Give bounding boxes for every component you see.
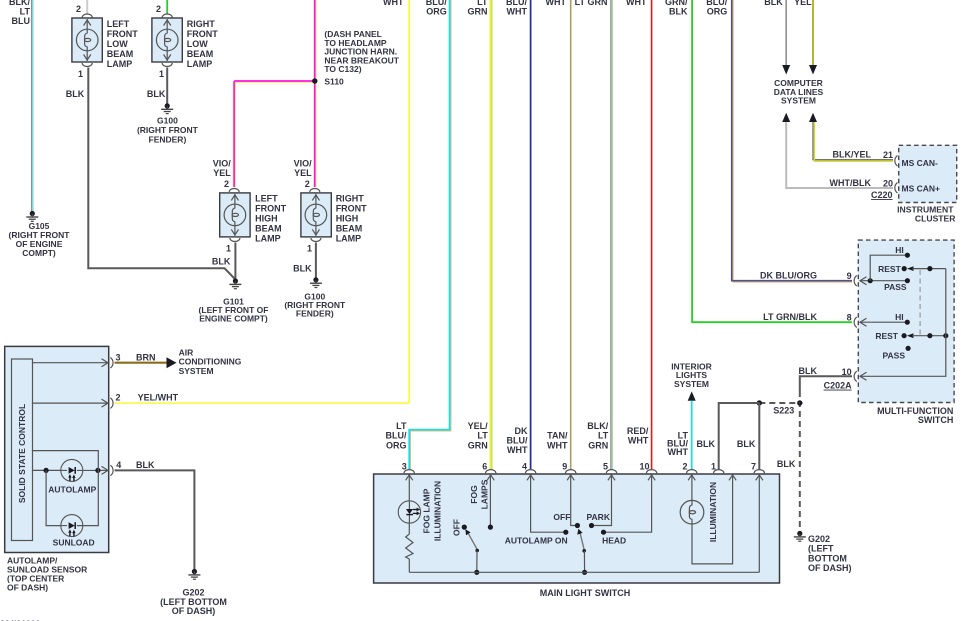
svg-text:RIGHT: RIGHT [187,19,216,29]
label fog lamp illumination [421,481,442,541]
svg-text:SWITCH: SWITCH [918,415,954,425]
wire MFS internal bus to pin 10 [860,269,946,381]
svg-text:C202A: C202A [824,381,853,391]
svg-text:MS CAN+: MS CAN+ [902,183,941,193]
svg-text:BLK: BLK [777,459,796,469]
wire BLK/YEL from computer data lines to C220 pin 21 [809,113,893,162]
svg-text:2: 2 [682,462,687,472]
svg-text:FRONT: FRONT [255,204,286,214]
svg-text:OFF: OFF [553,512,570,522]
svg-text:DK: DK [515,426,528,436]
autolamp/sunload sensor box [5,346,109,592]
svg-text:TAN/: TAN/ [547,431,568,441]
svg-text:8: 8 [847,313,852,323]
node REST upper with wiper [878,264,946,274]
wire BLK sensor pin 4 to G202 [115,460,195,570]
svg-text:4: 4 [116,460,121,470]
wire LT BLU/WHT to pin 2 [667,401,692,470]
svg-text:FENDER): FENDER) [296,309,334,319]
svg-text:SYSTEM: SYSTEM [179,366,214,376]
svg-text:PARK: PARK [587,512,611,522]
pin 10 main light switch [601,462,657,535]
svg-text:BRN: BRN [136,352,156,362]
wire BLK pin 7 to S223 [737,403,759,470]
svg-text:ORG: ORG [426,7,447,17]
svg-text:LOW: LOW [187,39,208,49]
svg-text:1: 1 [78,69,83,79]
ground G202 (left bottom of dash) [794,531,852,573]
svg-text:2: 2 [224,179,229,189]
svg-text:FRONT: FRONT [336,204,367,214]
main light switch box [374,474,780,598]
svg-text:WHT: WHT [507,445,528,455]
svg-text:LAMPS: LAMPS [480,479,490,509]
svg-text:6: 6 [482,462,487,472]
wire WHT/BLK from computer data lines to C220 pin 20 [782,113,893,189]
pin 4 main light switch [522,462,568,535]
svg-text:ORG: ORG [707,7,728,17]
svg-text:AUTOLAMP: AUTOLAMP [48,485,96,495]
svg-text:1: 1 [307,244,312,254]
svg-text:REST: REST [878,264,901,274]
pin 2 main light switch [682,462,696,501]
wire BRN to air conditioning [115,347,242,376]
label fog lamps [469,479,490,509]
wire BLK pin1 right high beam [293,238,321,279]
wire YEL to computer data lines [794,0,817,75]
svg-text:3: 3 [116,352,121,362]
lamp right front low beam [152,18,218,69]
svg-text:9: 9 [847,271,852,281]
svg-text:WHT: WHT [546,0,567,7]
node S223 [757,400,803,415]
svg-text:GRN: GRN [468,7,488,17]
svg-text:WHT: WHT [668,447,689,457]
svg-text:BLK: BLK [147,89,166,99]
svg-text:RED/: RED/ [627,426,649,436]
wire BLK pin1 left high beam [212,238,240,280]
svg-text:1: 1 [226,244,231,254]
multi-function switch [858,240,954,402]
svg-text:1: 1 [159,69,164,79]
svg-text:LAMP: LAMP [255,234,281,244]
wire BLK pin1 left low beam to G101 [66,63,236,280]
svg-text:(RIGHT FRONT: (RIGHT FRONT [137,125,199,135]
svg-text:BLK: BLK [136,460,155,470]
lamp illumination [680,482,718,542]
svg-text:LT: LT [598,431,609,441]
instrument cluster [895,145,957,223]
wire dashed to G202 [777,391,800,532]
wire WHT pin2 left low beam [76,0,92,18]
svg-text:(LEFT: (LEFT [808,544,834,554]
svg-text:YEL: YEL [213,168,231,178]
svg-text:LAMP: LAMP [107,59,133,69]
wire BLK/LT BLU to G105 [9,0,33,212]
svg-text:2: 2 [76,4,81,14]
pin 4 sensor [98,460,121,476]
svg-text:2: 2 [116,393,121,403]
svg-text:BLK: BLK [293,264,312,274]
svg-text:YEL/: YEL/ [468,421,489,431]
svg-text:YEL: YEL [294,168,312,178]
svg-text:LT GRN: LT GRN [575,0,608,7]
svg-text:CLUSTER: CLUSTER [915,214,956,224]
wire internal ground bus [409,571,759,573]
wire TAN/WHT to pin 9 [546,0,571,470]
svg-text:REST: REST [875,331,898,341]
svg-text:HI: HI [895,312,904,322]
wire DK BLU/WHT to pin 4 [506,0,531,470]
svg-text:G100: G100 [157,116,178,126]
svg-text:LT: LT [477,431,488,441]
node PASS upper [884,278,910,292]
svg-text:BLK: BLK [212,257,231,267]
svg-text:MAIN LIGHT SWITCH: MAIN LIGHT SWITCH [540,588,631,598]
lamp right front high beam [294,159,368,244]
svg-text:BOTTOM: BOTTOM [808,553,847,563]
wire GRN/BLK to MFS pin 8 [665,0,852,322]
svg-text:BLK: BLK [799,366,818,376]
svg-text:OFF: OFF [452,519,462,536]
node PASS lower [882,346,910,361]
wire YEL/WHT from sensor [115,392,410,403]
svg-text:21: 21 [883,150,893,160]
svg-text:ENGINE COMPT): ENGINE COMPT) [199,314,268,324]
svg-text:20: 20 [883,178,893,188]
svg-text:WHT: WHT [547,440,568,450]
svg-text:BLK: BLK [669,7,688,17]
svg-text:SYSTEM: SYSTEM [674,379,709,389]
switch fog lamps [452,519,480,575]
svg-text:DK BLU/ORG: DK BLU/ORG [760,270,817,280]
svg-text:ILLUMINATION: ILLUMINATION [708,482,718,542]
svg-text:FOG LAMP: FOG LAMP [421,488,431,533]
svg-text:BLK/YEL: BLK/YEL [832,150,871,160]
svg-text:BEAM: BEAM [187,49,214,59]
svg-text:BEAM: BEAM [255,224,282,234]
ground G105 [9,211,71,258]
svg-text:COMPT): COMPT) [22,248,56,258]
svg-text:2: 2 [156,4,161,14]
svg-text:LT: LT [20,7,31,17]
svg-text:VIO/: VIO/ [213,159,232,169]
svg-text:BLU/: BLU/ [507,436,528,446]
pin 1 main light switch [711,462,724,474]
svg-text:HIGH: HIGH [336,214,359,224]
svg-text:4: 4 [522,462,527,472]
svg-text:HI: HI [895,245,904,255]
svg-text:HEAD: HEAD [602,536,626,546]
wire BLK to computer data lines [764,0,790,75]
resistor fog lamp illumination [406,523,413,572]
wire BLK/LT GRN to pin 5 [575,0,613,470]
ground G202 (sensor) [160,569,227,616]
svg-text:BLK: BLK [764,0,783,7]
pin 9 MFS [847,271,908,286]
node S110 [312,29,400,87]
svg-text:WHT/BLK: WHT/BLK [830,178,872,188]
svg-text:ORG: ORG [386,440,407,450]
svg-text:LAMP: LAMP [187,59,213,69]
pin 7 main light switch [751,462,765,573]
svg-text:GRN: GRN [468,440,488,450]
connector C220 [871,190,893,200]
connector C202A [824,381,954,425]
pin 9 main light switch [562,462,580,529]
svg-text:G202: G202 [808,534,830,544]
svg-text:WHT: WHT [626,0,647,7]
svg-text:BLU: BLU [12,16,31,26]
wire VIO/YEL network with splice S110 [234,0,316,187]
photodiode autolamp [32,459,101,494]
wire BLK pin 1 to S223 [697,403,760,470]
svg-text:BLK: BLK [66,89,85,99]
svg-text:LEFT: LEFT [107,19,130,29]
svg-text:TO C132): TO C132) [324,64,361,74]
svg-text:WHT: WHT [507,7,528,17]
svg-text:2: 2 [305,179,310,189]
ground G101 [199,278,269,323]
node HI upper [868,245,910,284]
svg-text:YEL: YEL [794,0,812,7]
pin 5 main light switch [589,462,617,529]
svg-text:VIO/: VIO/ [294,159,313,169]
diagram id [0,619,40,621]
svg-text:FOG: FOG [469,485,479,504]
svg-text:BLU/: BLU/ [386,431,407,441]
svg-text:WHT: WHT [383,0,404,7]
pin 10 MFS [842,367,857,382]
pin 3 sensor [32,352,121,368]
pin 8 MFS [847,313,908,328]
svg-text:C220: C220 [871,190,893,200]
pin 2 sensor [32,393,121,409]
svg-text:LT: LT [396,421,407,431]
wire BLK pin1 right low beam [147,63,172,105]
ground G100 right front fender (high beam) [284,277,346,318]
svg-text:OF DASH): OF DASH) [808,563,852,573]
svg-text:WHT: WHT [628,436,649,446]
svg-text:OF DASH): OF DASH) [7,583,48,593]
switch autolamp rotary [505,512,626,575]
svg-text:BEAM: BEAM [336,224,363,234]
svg-text:7: 7 [751,462,756,472]
svg-text:LOW: LOW [107,39,128,49]
svg-text:RIGHT: RIGHT [336,194,365,204]
wire BLU/ORG to MFS pin 9 [706,0,852,282]
svg-text:FRONT: FRONT [187,29,218,39]
svg-text:BLK: BLK [697,439,716,449]
svg-text:SYSTEM: SYSTEM [781,96,816,106]
svg-text:BEAM: BEAM [107,49,134,59]
svg-text:BLK/: BLK/ [587,421,608,431]
svg-text:OF DASH): OF DASH) [172,606,216,616]
svg-text:MS CAN-: MS CAN- [902,158,939,168]
svg-text:PASS: PASS [884,282,907,292]
LED fog lamp illumination [398,501,420,523]
wire GRN pin2 right low beam [156,0,172,18]
svg-text:BLK: BLK [737,439,756,449]
svg-text:HIGH: HIGH [255,214,278,224]
pin 3 main light switch [402,462,415,502]
svg-text:S110: S110 [324,77,344,87]
lamp left front high beam [213,159,287,244]
wire YEL/WHT vertical [383,0,409,403]
pin 6 main light switch [482,462,496,530]
svg-text:ILLUMINATION: ILLUMINATION [433,481,443,541]
svg-text:SOLID STATE CONTROL: SOLID STATE CONTROL [17,404,27,503]
wire LT BLU/ORG to pin 3 [386,0,451,470]
svg-text:PASS: PASS [882,351,905,361]
svg-text:AUTOLAMP ON: AUTOLAMP ON [505,536,568,546]
svg-text:FENDER): FENDER) [149,135,187,145]
mechanical link dashed [919,270,921,336]
ground G100 right front fender (low beam) [137,103,199,144]
svg-text:GRN: GRN [588,440,608,450]
photodiode sunload [32,451,98,548]
svg-text:LAMP: LAMP [336,234,362,244]
wire illumination to pin 1 [692,475,736,564]
svg-text:YEL/WHT: YEL/WHT [138,392,179,402]
svg-text:LT GRN/BLK: LT GRN/BLK [763,312,817,322]
svg-text:5: 5 [603,462,608,472]
wire RED/WHT to pin 10 [626,0,652,470]
svg-text:9: 9 [562,462,567,472]
node computer data lines system [774,78,824,106]
svg-text:FRONT: FRONT [107,29,138,39]
wire YEL/LT GRN to pin 6 [468,0,492,470]
lamp left front low beam [72,18,138,69]
svg-text:SUNLOAD: SUNLOAD [53,537,95,547]
svg-text:LEFT: LEFT [255,194,278,204]
wire BLK MFS pin 10 to S223 [799,366,853,391]
node REST lower with wiper [875,331,948,341]
node interior lights system [671,361,712,400]
svg-text:S223: S223 [773,405,794,415]
node HI lower [895,312,910,325]
